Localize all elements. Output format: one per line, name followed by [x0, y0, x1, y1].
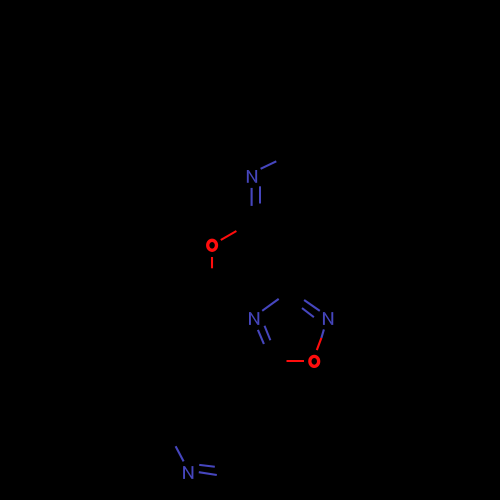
wire: bond C3'-N4 oxadiazole (N half)	[262, 299, 279, 311]
wire: bond C3'=N2 double (N half, inner line)	[302, 308, 314, 317]
wire: bond N1''-C6'' pyridine bottom (N half)	[176, 446, 184, 461]
atom O1 oxadiazole oxygen	[310, 356, 319, 366]
atom N1'' pyridine-bottom nitrogen	[183, 466, 193, 479]
wire: bond C3'=N2 double (N half, main line)	[304, 300, 320, 311]
wire: bond O1-C5' oxadiazole (O half)	[287, 360, 305, 362]
atom N4 oxadiazole left nitrogen	[249, 312, 259, 325]
wire: bond N1=C2 double (pyridine top, N half, inner line)	[259, 186, 261, 203]
atom N1 pyridine-top nitrogen	[247, 170, 257, 183]
wire: bond N1''=C2'' double pyridine bottom (N half, inner line)	[199, 465, 215, 467]
wire: bond N1=C2 double (pyridine top, N half, main line)	[251, 188, 253, 206]
atom N2 oxadiazole right nitrogen	[323, 312, 333, 325]
wire: bond N1''=C2'' double pyridine bottom (N half, main line)	[199, 472, 217, 475]
wire: bond O-C2 methoxy (O half)	[221, 231, 237, 240]
wire: bond N4=C5' double (N half, main line)	[258, 330, 264, 344]
wire: bond N1-C6 (pyridine top, N half)	[261, 161, 277, 169]
wire: bond N2-O1 oxadiazole (O half)	[317, 338, 322, 350]
atom O methoxy oxygen	[208, 240, 217, 250]
wire: bond N2-O1 oxadiazole (N half)	[321, 329, 324, 338]
wire: bond N4=C5' double (N half, inner line)	[265, 326, 271, 341]
wire: bond O-CH3 methoxy (O half)	[211, 257, 213, 268]
